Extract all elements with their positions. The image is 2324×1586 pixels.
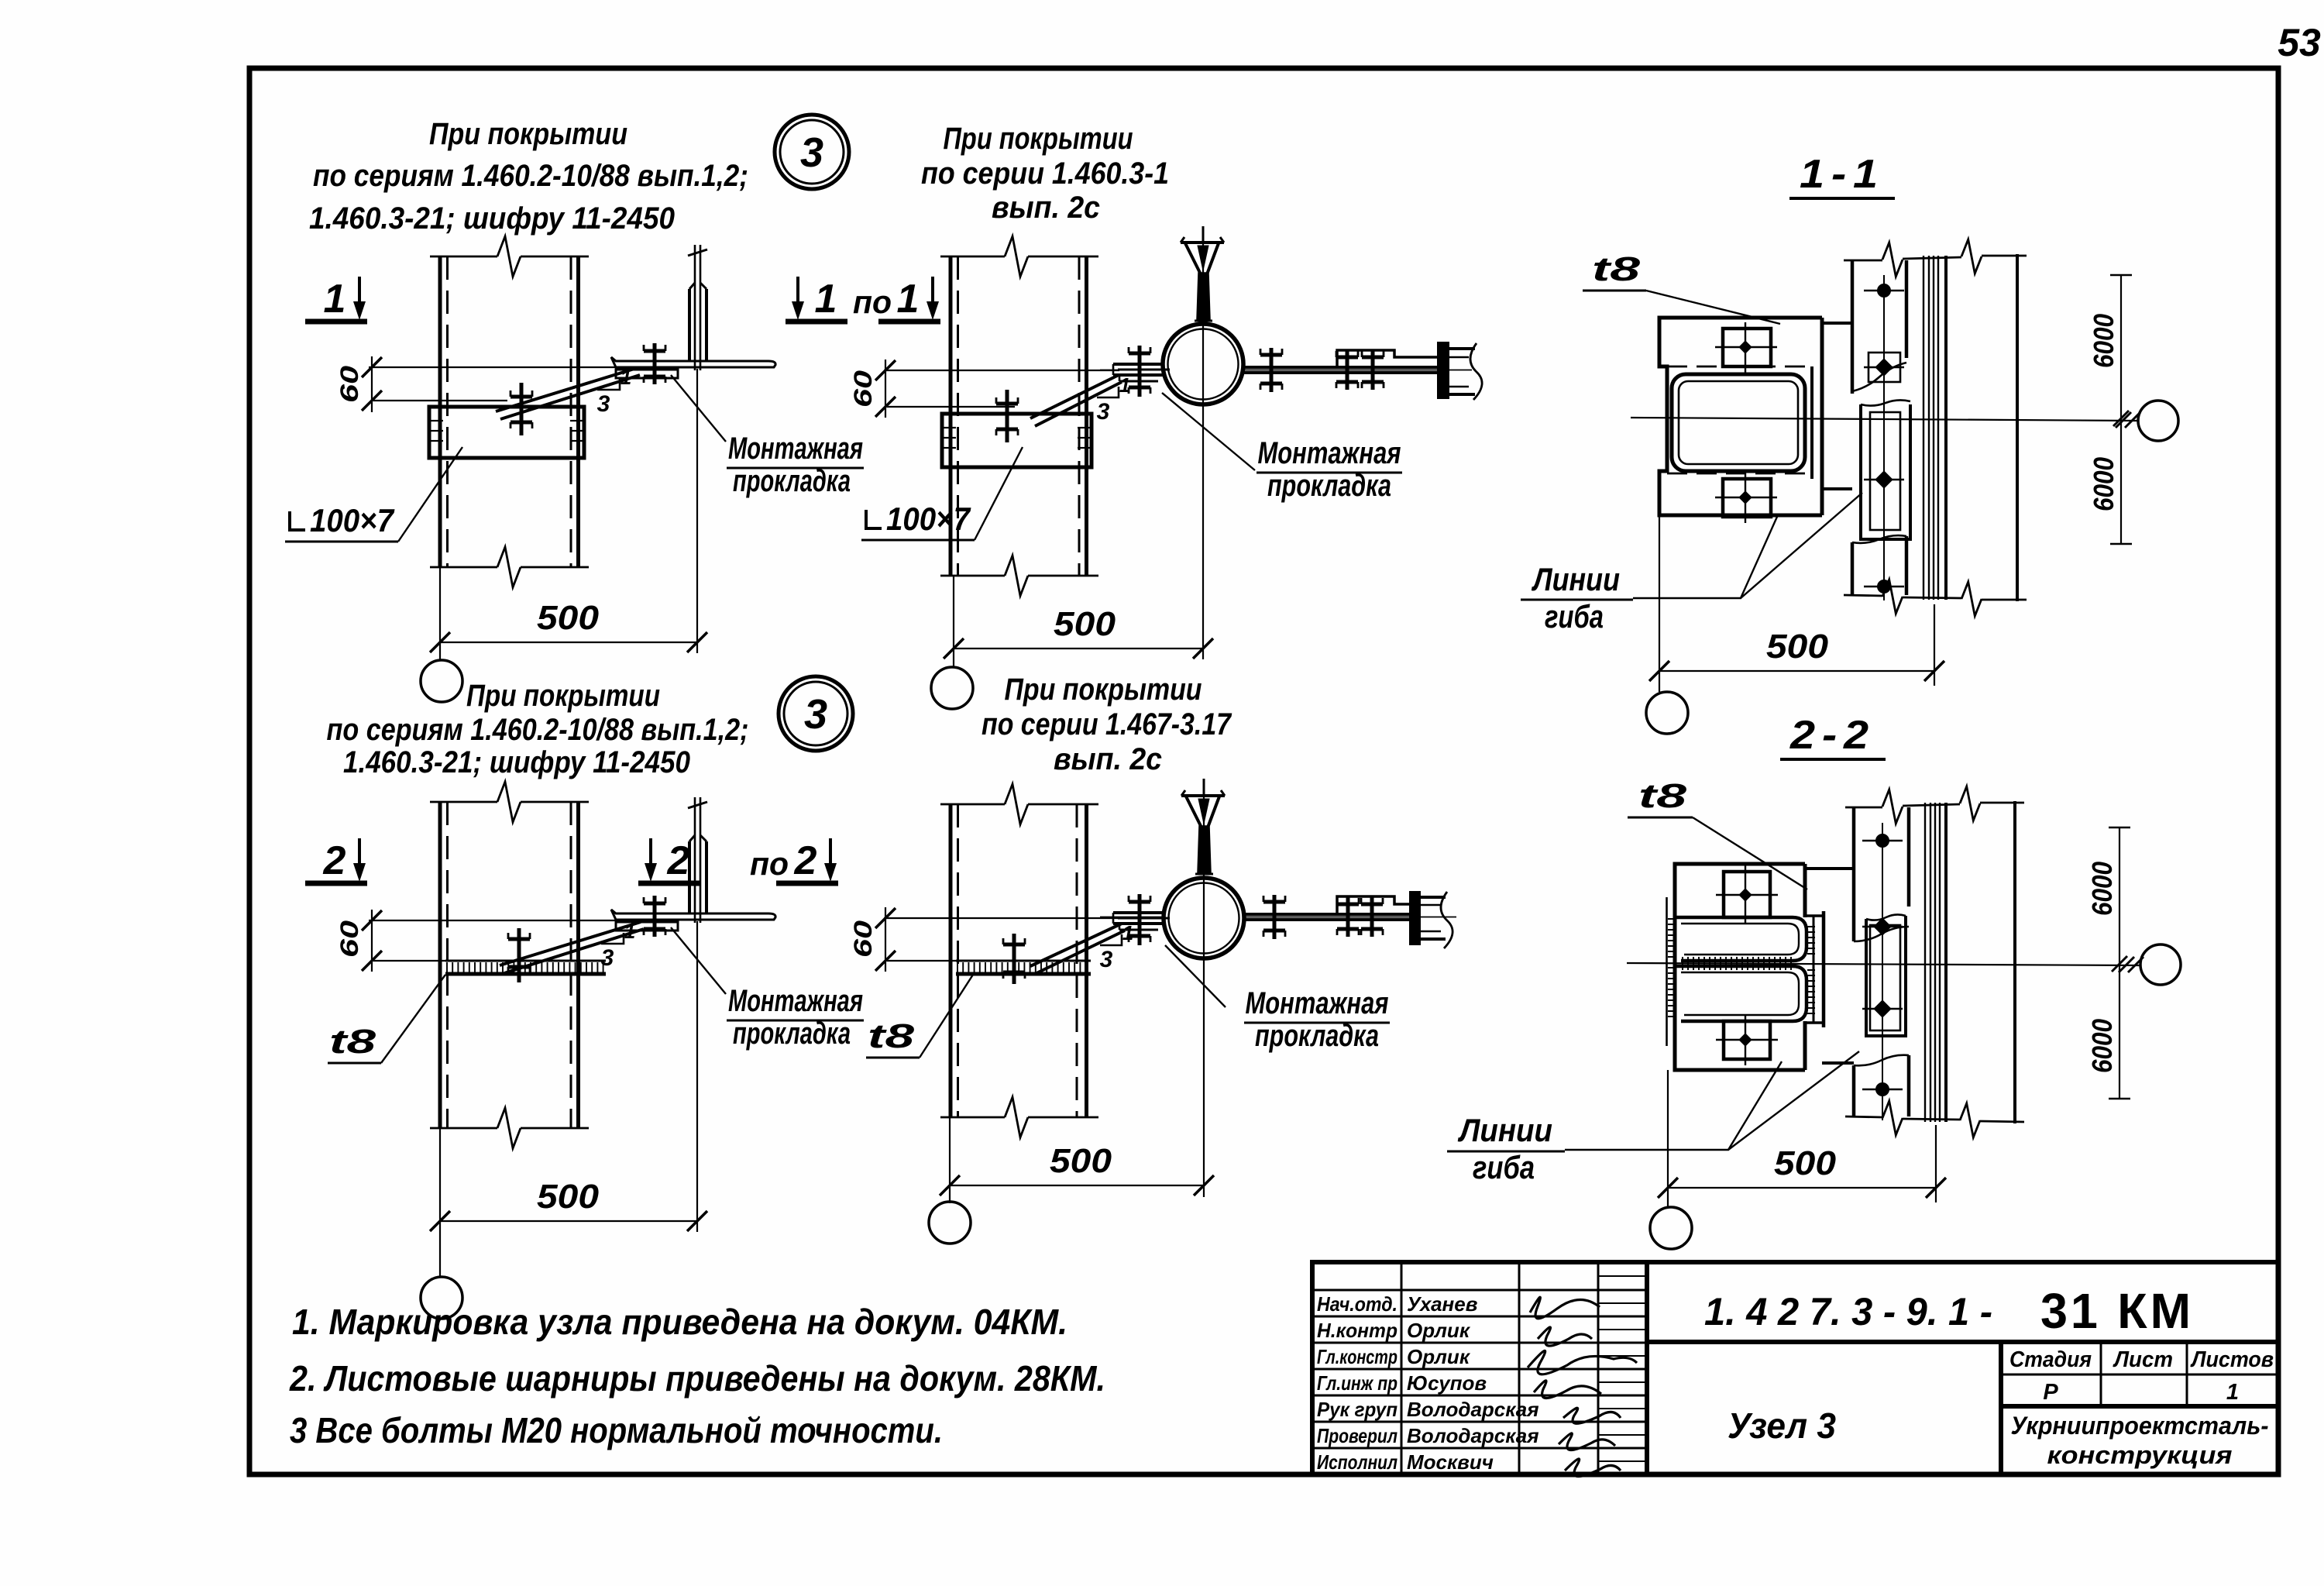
s22 upper finger serration <box>1683 962 1791 970</box>
svg-text:по сериям 1.460.2-10/88 вып.1,: по сериям 1.460.2-10/88 вып.1,2; <box>327 713 749 747</box>
s22 bolt box bottom <box>1724 1021 1770 1059</box>
svg-text:60: 60 <box>335 920 363 958</box>
detail3 dimension 60 <box>369 920 643 921</box>
svg-text:1: 1 <box>324 277 346 322</box>
svg-text:прокладка: прокладка <box>1267 469 1391 503</box>
svg-text:Проверил: Проверил <box>1317 1424 1397 1447</box>
s22 column top edge with breaks <box>1845 807 1882 809</box>
detail1 bolt on plate <box>520 383 524 435</box>
detail1 truss tee stem <box>694 245 696 370</box>
svg-text:53: 53 <box>2278 21 2321 64</box>
s11 column bottom edge with breaks <box>1844 595 1882 596</box>
svg-text:гиба: гиба <box>1473 1149 1535 1185</box>
s22 grid bubble bottom <box>1650 1207 1692 1249</box>
detail3 diagonal brace double line <box>500 922 641 965</box>
detail4 column flange right solid <box>1085 804 1088 1117</box>
s11 bracket inner tube outer <box>1672 374 1805 471</box>
svg-text:Р: Р <box>2043 1380 2058 1405</box>
detail3 leader to montage pad text <box>671 927 726 994</box>
detail4 tie bolt 3 <box>1370 897 1374 937</box>
svg-text:500: 500 <box>537 599 600 637</box>
svg-text:прокладка: прокладка <box>1255 1019 1379 1053</box>
detail4 leader to montage pad text <box>1165 945 1226 1007</box>
s11 bolt box bottom <box>1723 479 1771 517</box>
svg-text:Монтажная: Монтажная <box>728 984 863 1018</box>
svg-text:3: 3 <box>601 945 614 971</box>
detail4 end plate <box>1411 893 1419 944</box>
s22 bolt 3 on column <box>1862 1008 1903 1010</box>
detail1 column flange left solid <box>438 256 442 567</box>
svg-text:500: 500 <box>1054 605 1116 643</box>
svg-text:Рук груп: Рук груп <box>1317 1398 1397 1421</box>
svg-text:Лист: Лист <box>2113 1347 2173 1372</box>
detail2 column flange left dashed <box>957 256 959 576</box>
s11 bolt 3 on column <box>1864 479 1904 480</box>
s22 hinge plate outer <box>1866 916 1906 1036</box>
detail4 funnel brace above <box>1203 779 1205 795</box>
s11 hinge plate inner <box>1870 412 1900 530</box>
detail1 truss tee flange <box>611 357 775 367</box>
detail1 column flange left dashed <box>446 256 449 567</box>
detail2 label angle L100x7 <box>866 510 882 528</box>
svg-text:31 КМ: 31 КМ <box>2040 1283 2194 1339</box>
detail4 weld seam with serration <box>956 960 1091 962</box>
s11 dashed box around bolt <box>1868 353 1900 382</box>
s22 column right flange <box>2013 801 2016 1123</box>
svg-text:1: 1 <box>897 277 920 322</box>
s22 column flange plate bottom portion <box>1852 1065 1856 1116</box>
detail4 slope triangle 3:1 <box>1100 934 1122 945</box>
detail1 dimension 500 <box>439 567 441 659</box>
svg-text:500: 500 <box>537 1178 600 1216</box>
title block half rows in date strip <box>1598 1275 1647 1277</box>
svg-text:6000: 6000 <box>2088 457 2119 511</box>
s11 horizontal centerline <box>1631 418 2138 421</box>
detail1 shelf plate <box>429 407 584 458</box>
detail2 weld ticks left <box>944 427 956 428</box>
s22 dimension 500 <box>1667 1070 1669 1209</box>
svg-text:по серии 1.460.3-1: по серии 1.460.3-1 <box>921 157 1169 191</box>
detail1 slope triangle 3:1 <box>597 379 620 390</box>
svg-text:по: по <box>750 845 789 882</box>
detail4 bolt on weld <box>1012 934 1016 984</box>
svg-text:При покрытии: При покрытии <box>466 679 660 713</box>
title block signatures <box>1530 1297 1600 1319</box>
detail4 round column circle <box>1164 878 1244 958</box>
detail1 column flange right solid <box>576 256 580 567</box>
svg-text:1: 1 <box>2226 1380 2239 1405</box>
svg-text:1-1: 1-1 <box>1800 152 1885 197</box>
s11 bolt centerline <box>1883 275 1885 600</box>
svg-text:1: 1 <box>815 277 837 322</box>
svg-text:При покрытии: При покрытии <box>1005 673 1202 707</box>
s11 bent bracket outline <box>1659 318 1822 515</box>
s11 bracket inner tube inner <box>1679 381 1798 464</box>
svg-text:Володарская: Володарская <box>1407 1398 1539 1421</box>
detail2 tie bolt 1 <box>1270 348 1274 392</box>
detail2 shelf plate <box>942 414 1092 467</box>
detail3 leader from t8 <box>381 975 445 1063</box>
detail2 column flange left solid <box>949 256 953 576</box>
detail2 grid bubble <box>931 667 973 709</box>
detail3 dimension 500 <box>439 1128 441 1277</box>
title block personnel rows <box>1312 1289 1647 1292</box>
detail2 column flange right dashed <box>1078 256 1081 576</box>
s22 bolt box top <box>1724 872 1770 917</box>
svg-text:3: 3 <box>1097 399 1110 425</box>
svg-text:t8: t8 <box>1592 250 1641 288</box>
detail2 end plate <box>1439 343 1448 397</box>
s11 bracket open side flange <box>1810 366 1813 479</box>
detail2 slope triangle 3:1 <box>1097 387 1119 397</box>
svg-text:60: 60 <box>849 370 877 408</box>
detail4 vertical centerline <box>1203 783 1205 1197</box>
detail4 beam stub with break <box>1419 896 1446 899</box>
svg-text:Линии: Линии <box>1531 561 1620 597</box>
s22 upper finger <box>1676 917 1807 961</box>
s11 leaders from linii giba <box>1633 517 1777 598</box>
svg-text:Нач.отд.: Нач.отд. <box>1317 1292 1397 1316</box>
s11 leader from t8 <box>1646 291 1780 324</box>
detail2 funnel brace above <box>1202 226 1205 242</box>
svg-text:Н.контр: Н.контр <box>1317 1319 1397 1342</box>
s22 upper finger left serration <box>1668 919 1676 957</box>
s22 bolt 1 on column <box>1862 840 1903 841</box>
s22 horizontal centerline <box>1627 963 2140 965</box>
detail3 column flange left solid <box>438 802 442 1128</box>
s11 hinge plate outer <box>1861 404 1910 539</box>
svg-text:по: по <box>853 284 892 320</box>
s22 bracket right side top segment <box>1803 864 1807 917</box>
svg-text:3: 3 <box>1100 947 1113 972</box>
s22 lower finger left serration <box>1668 968 1676 1017</box>
detail4 grid bubble <box>929 1202 971 1244</box>
detail4 bolt at tie <box>1138 894 1142 945</box>
s22 lower finger <box>1676 966 1807 1021</box>
svg-text:6000: 6000 <box>2088 314 2119 368</box>
detail2 column flange right solid <box>1085 256 1088 576</box>
detail4 montage pad plates at tie <box>1113 911 1164 914</box>
svg-text:прокладка: прокладка <box>733 1017 851 1051</box>
s11 dimension 500 <box>1659 515 1660 692</box>
detail1 montage pad plate <box>616 370 678 378</box>
detail3 bolt at tee <box>653 896 657 937</box>
node marker circle 3 middle <box>779 676 853 751</box>
svg-text:1. Маркировка узла приведена н: 1. Маркировка узла приведена на докум. 0… <box>292 1302 1067 1342</box>
svg-text:Листов: Листов <box>2190 1347 2274 1372</box>
s22 lower finger right serration <box>1807 970 1815 1013</box>
svg-text:t8: t8 <box>868 1017 915 1055</box>
detail2 tie bolt 3 <box>1371 350 1375 390</box>
s22 leaders from linii giba <box>1565 1061 1782 1150</box>
detail3 column flange left dashed <box>446 802 449 1128</box>
svg-text:Гл.констр: Гл.констр <box>1317 1345 1397 1368</box>
svg-text:3: 3 <box>804 691 827 738</box>
s22 connector plate top <box>1805 867 1854 870</box>
svg-text:500: 500 <box>1766 628 1829 666</box>
title block stadia list listov <box>1999 1342 2003 1474</box>
title block vertical divider main <box>1645 1262 1649 1474</box>
detail4 dimension 60 <box>884 917 1119 919</box>
detail2 montage pad plates at tie <box>1113 363 1164 366</box>
detail3 bolt on weld <box>517 928 521 982</box>
s11 column right flange <box>2016 254 2019 601</box>
svg-text:3 Все болты М20 нормальной то: 3 Все болты М20 нормальной точности. <box>290 1410 943 1450</box>
detail2 diagonal brace double line <box>1030 375 1119 418</box>
detail3 truss tee flange <box>611 910 775 920</box>
detail4 column flange right dashed <box>1076 804 1078 1117</box>
s11 bolt box top <box>1723 329 1771 366</box>
s22 bolt 4 on column <box>1862 1089 1903 1090</box>
svg-text:2: 2 <box>323 838 346 883</box>
s22 leader from t8 <box>1693 817 1807 889</box>
svg-text:100×7: 100×7 <box>886 501 971 537</box>
detail1 dimension 60 <box>369 366 643 368</box>
svg-text:2-2: 2-2 <box>1789 713 1875 758</box>
detail4 leader from t8 <box>920 975 973 1058</box>
svg-text:Орлик: Орлик <box>1407 1345 1471 1368</box>
svg-text:прокладка: прокладка <box>733 464 851 498</box>
svg-text:t8: t8 <box>329 1023 376 1061</box>
svg-text:Володарская: Володарская <box>1407 1424 1539 1447</box>
detail2 column bottom break <box>940 575 1005 577</box>
s11 bracket right edge <box>1820 318 1824 515</box>
detail1 weld ticks left <box>431 420 443 421</box>
s11 grid bubble bottom <box>1646 692 1688 734</box>
detail1 leader from L100x7 <box>398 447 462 542</box>
s22 column web lines <box>1924 803 1926 1122</box>
s22 bolt 2 on column <box>1862 926 1903 927</box>
svg-text:2: 2 <box>667 838 690 883</box>
svg-text:1.460.3-21; шифру 11-2450: 1.460.3-21; шифру 11-2450 <box>343 745 690 779</box>
detail4 tie member centerline <box>1100 917 1164 918</box>
svg-text:6000: 6000 <box>2086 1019 2118 1073</box>
svg-text:по сериям 1.460.2-10/88 вып.1,: по сериям 1.460.2-10/88 вып.1,2; <box>313 159 748 193</box>
detail1 column flange right dashed <box>570 256 572 567</box>
svg-text:1. 4 2 7. 3 - 9. 1 -: 1. 4 2 7. 3 - 9. 1 - <box>1704 1290 1992 1333</box>
svg-text:6000: 6000 <box>2086 862 2118 916</box>
detail4 column flange left dashed <box>957 804 959 1117</box>
detail2 column top break <box>940 256 1005 258</box>
s11 bracket bottom arm dashed bend line <box>1667 473 1805 475</box>
s11 grid bubble right <box>2138 401 2178 441</box>
s11 connector plate top <box>1822 322 1852 325</box>
s11 column flange plate top portion <box>1851 260 1855 394</box>
s22 connector plate bottom <box>1822 1061 1854 1065</box>
svg-text:1.460.3-21; шифру 11-2450: 1.460.3-21; шифру 11-2450 <box>309 201 675 236</box>
svg-text:Монтажная: Монтажная <box>1258 436 1401 470</box>
detail3 column flange right dashed <box>570 802 572 1128</box>
s11 column flange plate bottom portion <box>1851 542 1855 595</box>
detail3 weld seam with serration <box>445 960 606 962</box>
title block outer <box>1312 1262 2278 1474</box>
title block vertical divider col3 <box>1597 1262 1600 1474</box>
detail2 dimension 500 <box>953 576 954 666</box>
s22 column flange plate top portion <box>1852 807 1856 941</box>
detail2 beam stub with break <box>1448 347 1475 350</box>
detail2 bolt at tie <box>1138 346 1142 397</box>
s11 bracket top arm dashed bend line <box>1667 366 1805 368</box>
detail2 tie rod right double line <box>1243 366 1441 369</box>
detail2 tie member centerline <box>1100 370 1163 371</box>
svg-text:2. Листовые шарниры приведены: 2. Листовые шарниры приведены на докум. … <box>289 1358 1105 1399</box>
s22 hinge plate inner <box>1870 925 1900 1030</box>
svg-text:Москвич: Москвич <box>1407 1450 1494 1474</box>
svg-text:500: 500 <box>1050 1142 1112 1180</box>
svg-text:Гл.инж пр: Гл.инж пр <box>1317 1371 1397 1395</box>
s22 lower finger serration <box>1683 957 1791 965</box>
detail2 weld ticks right <box>1078 427 1090 428</box>
title block vertical divider col1 <box>1401 1262 1403 1474</box>
svg-text:t8: t8 <box>1638 777 1687 815</box>
s11 bolt 2 on column <box>1864 366 1904 368</box>
detail4 tie bolt 1 <box>1273 895 1277 939</box>
s22 grid bubble right <box>2140 944 2181 985</box>
detail1 diagonal brace double line <box>496 368 637 411</box>
svg-text:вып. 2с: вып. 2с <box>992 191 1100 225</box>
s22 hinge sheet channel <box>1813 916 1815 1023</box>
detail2 vertical centerline <box>1202 232 1204 659</box>
detail4 tie rod right double line <box>1244 913 1413 916</box>
detail3 column flange right solid <box>576 802 580 1128</box>
s11 bolt 1 on column <box>1864 290 1904 291</box>
detail1 column bottom break <box>430 566 497 569</box>
s11 connector plate bottom <box>1822 487 1852 490</box>
svg-text:Орлик: Орлик <box>1407 1319 1471 1342</box>
detail3 grid bubble <box>421 1277 462 1319</box>
s22 bracket right side bottom segment <box>1803 1021 1807 1070</box>
detail1 label angle L100x7 <box>290 511 305 530</box>
svg-text:Монтажная: Монтажная <box>728 432 863 466</box>
s11 column web lines <box>1923 256 1924 600</box>
detail3 column top break <box>430 801 497 803</box>
s22 vertical dimension 6000 <box>2119 827 2120 1099</box>
detail3 montage pad plate <box>616 922 678 931</box>
detail4 tie bolt 2 <box>1346 897 1350 937</box>
detail2 leader from L100x7 <box>975 447 1023 540</box>
svg-text:2: 2 <box>794 838 817 883</box>
s11 bolt 4 on column <box>1864 586 1904 587</box>
detail2 leader to montage pad text <box>1162 393 1255 470</box>
detail4 step plate on tie <box>1337 896 1411 914</box>
svg-text:Юсупов: Юсупов <box>1407 1371 1487 1395</box>
detail3 truss tee stem <box>694 797 696 923</box>
detail4 column top break <box>940 803 1005 806</box>
detail4 column flange left solid <box>949 804 953 1117</box>
svg-text:100×7: 100×7 <box>310 502 394 538</box>
s11 vertical dimension 6000 <box>2120 275 2122 544</box>
title block vertical divider col2 <box>1518 1262 1521 1474</box>
svg-text:Линии: Линии <box>1457 1112 1552 1148</box>
svg-text:Монтажная: Монтажная <box>1246 986 1389 1020</box>
svg-text:Стадия: Стадия <box>2009 1347 2092 1372</box>
detail1 bolt at tee <box>653 343 657 384</box>
svg-text:конструкция: конструкция <box>2047 1441 2233 1469</box>
detail2 tie bolt 2 <box>1346 350 1349 390</box>
detail4 diagonal brace double line <box>1030 924 1122 966</box>
svg-text:При покрытии: При покрытии <box>944 122 1133 156</box>
svg-text:60: 60 <box>849 920 877 958</box>
detail3 slope triangle 3:1 <box>601 933 624 944</box>
s11 column top edge with breaks <box>1844 260 1882 262</box>
svg-text:Уханев: Уханев <box>1407 1292 1478 1316</box>
detail1 column top break <box>430 256 497 258</box>
svg-text:3: 3 <box>597 391 610 417</box>
detail2 round column circle <box>1163 324 1243 404</box>
s22 left sheet edge <box>1666 897 1668 1046</box>
s22 column bottom edge with breaks <box>1845 1116 1882 1117</box>
detail2 bolt on plate <box>1006 390 1009 442</box>
svg-text:500: 500 <box>1774 1144 1837 1182</box>
title block designation box <box>1647 1340 2278 1344</box>
node marker circle 3 top <box>775 115 849 189</box>
svg-text:3: 3 <box>800 129 823 176</box>
s22 bent bracket outline <box>1675 864 1805 1070</box>
svg-text:При покрытии: При покрытии <box>429 117 627 151</box>
detail4 column bottom break <box>940 1116 1005 1119</box>
detail4 dimension 500 <box>949 1117 951 1203</box>
svg-text:60: 60 <box>335 366 363 403</box>
detail2 step plate on tie <box>1337 350 1439 367</box>
svg-text:вып. 2с: вып. 2с <box>1054 742 1162 776</box>
detail3 column bottom break <box>430 1127 497 1130</box>
svg-text:Исполнил: Исполнил <box>1317 1450 1397 1474</box>
svg-text:гиба: гиба <box>1545 598 1604 635</box>
s22 upper finger right serration <box>1807 927 1815 954</box>
svg-text:Узел 3: Узел 3 <box>1728 1405 1836 1446</box>
detail1 weld ticks right <box>570 420 583 421</box>
s22 lower finger inner line <box>1681 972 1799 1015</box>
drawing border frame <box>249 68 2278 1474</box>
s22 bolt centerline <box>1882 823 1883 1120</box>
detail2 dimension 60 <box>884 370 1119 371</box>
svg-text:по серии 1.467-3.17: по серии 1.467-3.17 <box>982 707 1232 741</box>
detail1 grid bubble <box>421 660 462 702</box>
detail1 leader to montage pad text <box>671 375 726 442</box>
svg-text:Укрниипроектсталь-: Укрниипроектсталь- <box>2011 1412 2269 1440</box>
s22 upper finger inner line <box>1681 924 1799 955</box>
